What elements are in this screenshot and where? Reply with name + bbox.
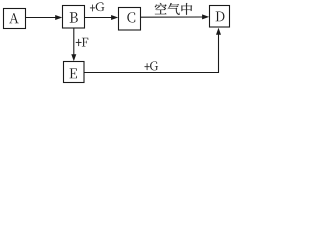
wire A to B arrow <box>26 15 63 20</box>
wire B down to E arrow <box>71 28 76 61</box>
wire E right along bottom <box>84 72 219 74</box>
box B <box>63 6 85 29</box>
box E <box>64 62 85 83</box>
label +G on B to C arrow <box>90 2 104 11</box>
wire B to C arrow <box>85 15 119 20</box>
label +F on B to E arrow <box>76 38 88 47</box>
wire up into D arrow <box>216 28 221 73</box>
wire C to D arrow <box>141 14 210 19</box>
box C <box>119 8 141 31</box>
label +G on E to D wire <box>145 61 159 70</box>
box A <box>4 9 26 29</box>
label 空气中 (in air) on C to D arrow <box>155 3 192 15</box>
box D <box>210 6 230 28</box>
